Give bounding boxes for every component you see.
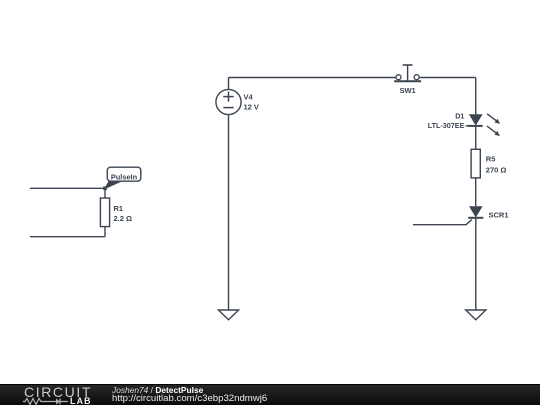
wire R5 to SCR [475,178,477,206]
footer title text [112,385,203,395]
svg-text:SW1: SW1 [399,86,415,95]
SCR SCR1 [468,206,508,219]
footer bar [0,384,540,405]
svg-text:V4: V4 [244,93,254,102]
svg-text:R5: R5 [486,154,496,163]
resistor R5 [471,149,506,178]
wire V4 to ground [228,115,230,310]
wire SCR gate [413,220,472,225]
ground (SCR1) [466,310,486,320]
svg-text:LTL-307EE: LTL-307EE [428,121,465,130]
wire LED to R5 [475,126,477,149]
wire R1 bottom lead [104,227,106,237]
svg-text:PulseIn: PulseIn [111,172,138,181]
wire top rail [229,77,397,79]
svg-text:R1: R1 [114,204,124,213]
flag PulseIn [105,167,141,188]
node PulseIn junction [103,187,107,191]
wire SCR to ground [475,218,477,310]
svg-text:D1: D1 [455,112,464,121]
ground (V4) [218,310,238,320]
svg-text:2.2 Ω: 2.2 Ω [114,214,133,223]
svg-text:12 V: 12 V [244,103,259,112]
svg-text:270 Ω: 270 Ω [486,165,507,174]
switch SW1 [394,65,421,95]
wire down to LED [475,78,477,115]
CircuitLab logo [24,384,92,400]
svg-text:SCR1: SCR1 [489,210,509,219]
wire R1 top lead [104,188,106,198]
resistor R1 [100,198,132,227]
wire bottom-left horizontal [30,236,105,238]
footer url text [112,393,267,404]
wire top-left horizontal [30,187,105,189]
wire V4 to top rail [228,78,230,90]
LED D1 [428,112,500,136]
voltage source V4 [216,89,259,114]
wire top rail right [419,77,476,79]
